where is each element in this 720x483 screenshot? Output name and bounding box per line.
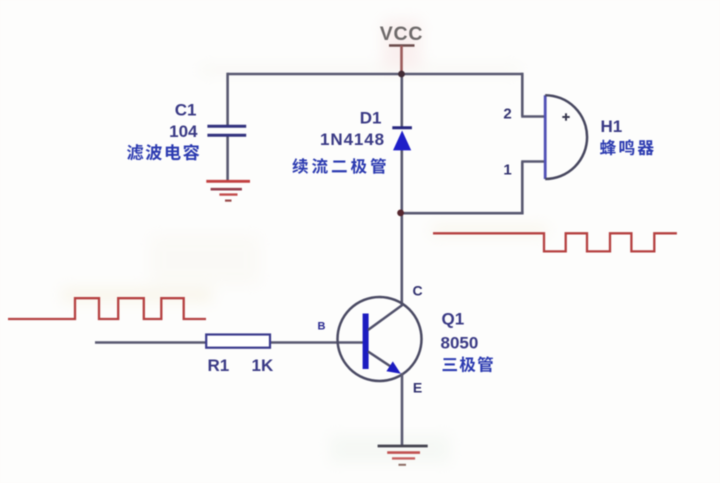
svg-text:2: 2: [503, 106, 511, 123]
svg-text:8050: 8050: [441, 334, 479, 353]
svg-text:Q1: Q1: [442, 310, 465, 329]
svg-text:104: 104: [169, 122, 198, 141]
svg-text:R1: R1: [208, 356, 230, 375]
svg-text:C1: C1: [175, 101, 197, 120]
svg-text:1N4148: 1N4148: [320, 130, 385, 149]
svg-text:D1: D1: [360, 109, 382, 128]
svg-text:H1: H1: [601, 117, 623, 136]
svg-text:B: B: [318, 321, 326, 333]
svg-text:1K: 1K: [252, 356, 274, 375]
svg-text:VCC: VCC: [380, 23, 424, 45]
svg-text:E: E: [413, 380, 422, 396]
svg-text:C: C: [412, 283, 422, 299]
svg-text:1: 1: [503, 162, 511, 179]
